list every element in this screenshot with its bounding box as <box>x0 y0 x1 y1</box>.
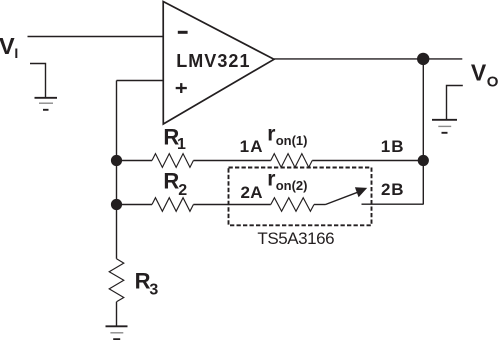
svg-text:2: 2 <box>178 182 187 199</box>
svg-text:V: V <box>471 59 487 85</box>
svg-text:r: r <box>267 122 275 145</box>
svg-text:V: V <box>0 33 15 59</box>
svg-text:LMV321: LMV321 <box>176 51 250 71</box>
svg-text:O: O <box>487 73 498 90</box>
svg-text:B: B <box>391 180 403 199</box>
svg-text:A: A <box>250 183 262 202</box>
svg-text:R: R <box>135 268 151 293</box>
svg-text:TS5A3166: TS5A3166 <box>257 229 334 248</box>
svg-text:R: R <box>163 168 179 193</box>
svg-text:2: 2 <box>241 183 250 202</box>
svg-text:A: A <box>250 137 262 156</box>
svg-text:1: 1 <box>381 137 390 156</box>
svg-text:on(1): on(1) <box>276 133 308 148</box>
svg-text:r: r <box>267 167 275 190</box>
svg-text:3: 3 <box>149 282 158 299</box>
svg-text:B: B <box>391 137 403 156</box>
svg-text:2: 2 <box>381 180 390 199</box>
svg-text:1: 1 <box>177 136 186 153</box>
svg-text:1: 1 <box>240 137 249 156</box>
svg-text:on(2): on(2) <box>276 178 308 193</box>
svg-text:I: I <box>14 45 18 61</box>
